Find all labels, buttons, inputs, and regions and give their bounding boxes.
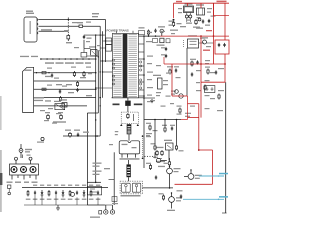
red bus AC y36	[160, 35, 229, 37]
wire CN602 pin1	[34, 72, 96, 73]
labels near bridge	[160, 31, 211, 47]
wire bottom link	[87, 204, 104, 206]
labels row mid	[146, 113, 191, 138]
resistor R617	[47, 114, 50, 120]
wire terminal leads	[16, 160, 31, 164]
diode block D615	[125, 101, 131, 106]
extra left labels	[47, 22, 101, 87]
transformer T601 core	[123, 34, 128, 98]
wire stub right	[199, 42, 214, 44]
page background	[0, 0, 230, 220]
label fuse holder	[25, 149, 32, 153]
parts feedback left	[146, 123, 158, 137]
transformer top stubs	[117, 31, 134, 34]
red seg bottom	[175, 183, 213, 185]
parts below Q641	[177, 106, 182, 115]
blue label lower	[219, 196, 228, 198]
capacitor C611	[51, 73, 53, 77]
red seg y150	[199, 149, 213, 151]
red drop 5	[224, 3, 226, 40]
red bus y64	[164, 63, 225, 65]
regulator box bottom	[88, 187, 102, 195]
wire CN602 pin4	[34, 97, 96, 99]
wire CN602 pin2	[34, 80, 96, 82]
bottom component row	[27, 190, 99, 197]
optocoupler PC601	[164, 140, 173, 150]
wire AC bend 1	[105, 20, 107, 63]
relay RY601 dashed box	[120, 181, 142, 194]
extra left labels 2	[40, 108, 61, 124]
bottom row labels 2	[33, 185, 100, 186]
wire filter link	[84, 48, 90, 52]
note text block	[34, 97, 44, 101]
wire AC line 3	[39, 30, 69, 32]
label IC601	[120, 158, 140, 160]
scan edge artifact left	[0, 96, 2, 212]
wire relay drops	[187, 13, 191, 23]
red drop 4	[213, 3, 215, 36]
resistor R621	[127, 113, 129, 119]
labels y131	[65, 130, 89, 133]
red drop 11	[224, 64, 226, 82]
resistor network RN601	[156, 147, 166, 167]
label LIVE wire	[41, 29, 52, 31]
transistor Q672	[184, 170, 194, 179]
bridge box small	[54, 101, 65, 110]
dashed wire right of IC	[142, 135, 144, 159]
extra labels top-right	[178, 8, 216, 21]
labels near mid vertical	[109, 131, 118, 145]
wire y35 cross	[84, 34, 105, 35]
capacitor C612	[59, 89, 61, 93]
label F601	[77, 22, 83, 23]
label under block	[7, 182, 38, 183]
tiny text col right	[205, 60, 225, 111]
bottom row labels	[26, 199, 101, 200]
wire C601 drop	[83, 40, 85, 48]
resistor R619	[69, 132, 72, 138]
transformer T601 secondary leads	[139, 44, 145, 96]
transformer T601 outline	[112, 33, 138, 97]
resistor R612	[42, 88, 46, 90]
labels left of FB602	[93, 163, 111, 176]
svg-text:POWER TRANS: POWER TRANS	[107, 28, 129, 32]
transformer T602 aux	[196, 4, 205, 15]
wire D615 feed	[127, 98, 129, 112]
connector CN601 AC inlet	[24, 17, 38, 42]
ferrite bead FB601	[127, 124, 132, 134]
red drop 2	[187, 3, 189, 6]
terminal lug 3	[30, 167, 36, 173]
resistor R613	[73, 71, 75, 77]
red drop opto	[187, 96, 189, 120]
wire far-right vertical	[225, 82, 227, 213]
ferrite bead FB602	[127, 164, 131, 177]
capacitor C644	[161, 47, 167, 51]
label Q672	[195, 175, 202, 179]
capacitor C645	[161, 54, 167, 58]
terminal block pins	[12, 175, 36, 180]
capacitor C641	[154, 29, 156, 33]
wire DC bus A	[95, 35, 97, 182]
wire AC bus to degauss	[139, 35, 161, 37]
wire far-right stub	[222, 212, 227, 214]
transformer primary bumps	[113, 59, 115, 85]
arrow right of FB601	[137, 124, 139, 126]
wire DC bus B	[87, 51, 98, 205]
parts under feedback	[162, 125, 175, 133]
wire CN602 pin3	[34, 89, 96, 90]
label Q671	[174, 168, 181, 172]
transistor Q651	[153, 157, 161, 163]
labels near transformer right	[146, 41, 153, 96]
parts mid-right 2	[190, 59, 199, 67]
wire secondary bus	[143, 36, 145, 119]
resistor R671	[164, 160, 171, 167]
line filter dashed boundary	[67, 18, 69, 35]
capacitor bank box	[205, 86, 215, 93]
label BAT	[113, 104, 120, 106]
red drop y15	[213, 3, 215, 15]
capacitor C615	[77, 133, 79, 137]
component left col bottom	[8, 185, 11, 195]
red seg y103	[188, 103, 199, 105]
transistor Q602	[198, 18, 201, 21]
transistor Q601 pair	[185, 15, 192, 18]
labels mid-left	[45, 76, 92, 102]
dotted wire to sub board	[144, 156, 153, 157]
red box contents	[218, 43, 226, 47]
wire AC bend 2	[99, 26, 101, 136]
terminal block TB601	[10, 164, 39, 175]
capacitor C671	[155, 175, 157, 179]
terminal post B	[29, 157, 32, 160]
transformer bottom rail	[112, 97, 144, 99]
red box heater	[215, 40, 229, 54]
red seg feedback	[181, 119, 188, 121]
label Q673	[176, 197, 182, 201]
labels R617 R618	[53, 121, 66, 122]
choke L601	[89, 46, 97, 56]
relay RY601 cell 2	[132, 183, 141, 192]
rectifier D602 box	[106, 45, 112, 52]
wire y98 secondary	[143, 97, 155, 99]
jack J602	[110, 210, 114, 214]
red seg y117	[188, 117, 199, 119]
capacitor C621	[133, 114, 135, 121]
extra labels mid-right	[150, 65, 215, 107]
bridge box D640	[188, 35, 199, 48]
transformer T601 primary winding	[113, 35, 121, 97]
wire under opto	[155, 150, 169, 161]
parts mid-right 3	[205, 67, 210, 75]
red label top 2	[176, 1, 182, 2]
transformer T601 secondary winding	[129, 35, 137, 97]
wire AC line 2	[39, 25, 78, 27]
red drop 6	[200, 36, 202, 118]
wire CN602 pin5	[34, 105, 87, 106]
blue wire B+ lower	[183, 199, 224, 201]
red drop 15	[212, 150, 214, 184]
capacitor C601	[83, 35, 92, 39]
wire bottom bus lower	[24, 204, 112, 206]
label bottom jacks	[90, 217, 100, 218]
wire y56 stub	[87, 55, 99, 57]
red seg y96	[172, 95, 188, 97]
connector CN602	[23, 67, 34, 112]
label row y56	[20, 56, 38, 57]
wire y136 horizontal	[63, 135, 100, 137]
connector stub bottom	[99, 211, 102, 215]
transformer T601 primary leads	[95, 41, 112, 89]
wire bottom bus upper	[22, 187, 108, 189]
photocoupler PC602	[60, 99, 67, 107]
blue label upper	[219, 173, 228, 175]
capacitor C648	[147, 95, 160, 103]
resistor R672	[146, 163, 152, 170]
wire jack feeds	[106, 205, 113, 210]
label POWER TRANS	[107, 28, 129, 32]
wire FB602 stubs	[128, 160, 130, 181]
transistor Q671	[167, 158, 173, 188]
ground symbol bottom	[56, 205, 60, 210]
label CALD	[134, 104, 143, 106]
red bus top	[174, 2, 230, 4]
bottom row vertical links	[35, 195, 98, 205]
header pin bus y59	[40, 58, 96, 60]
resistor R615	[59, 96, 61, 102]
resistor R652	[175, 145, 183, 152]
text top middle	[92, 13, 99, 17]
wire mid verticals	[155, 120, 177, 145]
relay RL601	[184, 3, 194, 12]
red drop 7	[213, 36, 215, 64]
jack J601	[104, 210, 108, 214]
varistor ZNR601	[66, 34, 72, 43]
red drop 1	[173, 3, 175, 18]
junction dots buses	[95, 40, 106, 137]
transistor Q641	[171, 91, 183, 99]
component D613	[37, 137, 44, 142]
label row y62	[45, 62, 91, 64]
wire RY601 out	[142, 187, 173, 189]
labels top right cluster	[170, 23, 200, 31]
tick between posts	[23, 155, 31, 159]
degauss coil	[157, 38, 165, 46]
red drop 3	[200, 3, 202, 8]
transistor Q642	[175, 90, 179, 94]
junctions bottom right	[171, 169, 192, 193]
resistor R614	[76, 81, 78, 92]
capacitor C604	[208, 19, 210, 23]
wire fuse drop	[20, 144, 22, 158]
component D611	[83, 71, 85, 77]
smoothing cap C605 box	[81, 53, 87, 58]
resistor stack top right	[169, 21, 182, 28]
capacitor C646	[191, 72, 193, 76]
wire left drop	[143, 120, 145, 169]
dash marks x183	[183, 40, 185, 48]
relay RY601 cell 1	[122, 183, 131, 192]
terminal post A	[15, 157, 18, 160]
thermistor TH601	[158, 26, 165, 36]
red seg y82	[201, 81, 225, 83]
label CN601	[26, 11, 34, 15]
wire AC bend 3	[102, 31, 104, 98]
resistor R646	[218, 94, 220, 100]
wire rect links	[100, 41, 106, 48]
label RY601	[121, 195, 141, 197]
resistor R641	[147, 30, 149, 36]
labels y30 right	[196, 25, 210, 29]
red drop 9	[171, 64, 173, 96]
red label top right	[217, 1, 227, 3]
red seg y15	[214, 15, 230, 17]
red drop 8	[224, 54, 226, 64]
misc part top right	[195, 19, 204, 25]
terminal lug 1	[11, 167, 17, 173]
dashed box snubber	[121, 112, 138, 124]
diode D621	[172, 19, 174, 21]
junctions on AC bus	[143, 35, 156, 37]
capacitor C672	[180, 194, 182, 198]
wire AC line 1	[39, 19, 106, 20]
label row y118	[45, 112, 63, 113]
fuse F601	[78, 25, 101, 27]
transistor Q673	[169, 193, 175, 207]
capacitor C647	[215, 70, 217, 74]
resistor R618	[60, 114, 63, 120]
resistor R645	[204, 85, 206, 91]
wire feedback horizontal	[144, 119, 181, 121]
red stub left	[163, 57, 165, 64]
wire mid vertical	[109, 152, 115, 205]
arrow left of FB601	[120, 124, 122, 126]
transistor Q681	[71, 192, 75, 196]
box left of bus	[139, 27, 145, 35]
rectifier D601 box	[106, 38, 112, 45]
IC601 regulator	[119, 141, 140, 158]
component under bus 1	[147, 32, 158, 43]
fuse holder circle	[19, 149, 23, 153]
inductor L603 bumps	[140, 61, 142, 89]
parts near Q673	[159, 190, 183, 200]
component under bus 2	[166, 39, 170, 43]
wire FB601 down	[128, 134, 130, 141]
red junction dots	[198, 35, 226, 151]
IC641 vertical	[153, 75, 168, 89]
posistor P601	[202, 37, 208, 44]
terminal lug 2	[21, 167, 27, 173]
red drop 14	[198, 104, 200, 150]
resistor R651	[151, 143, 157, 150]
blue wire B+ upper	[199, 175, 224, 177]
component bottom-left corner	[112, 197, 118, 205]
red tiny text mid	[203, 30, 212, 51]
diode D671	[167, 207, 175, 211]
wire bottom-left horizontal	[87, 182, 101, 184]
parts mid-right 1	[167, 66, 179, 74]
wire black drop mid	[186, 48, 188, 96]
resistor R611	[42, 72, 46, 74]
